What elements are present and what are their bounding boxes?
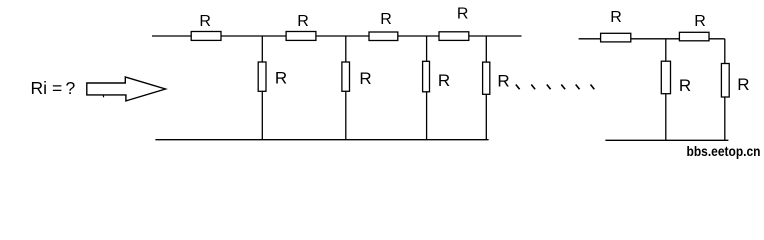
- svg-text:R: R: [457, 6, 469, 23]
- resistor R series 1: [191, 32, 221, 41]
- svg-text:R: R: [275, 69, 287, 88]
- resistor R series 5: [601, 33, 631, 42]
- resistor R shunt 5: [661, 61, 670, 93]
- wire node 3 vertical: [426, 36, 428, 140]
- svg-text:bbs.eetop.cn: bbs.eetop.cn: [687, 143, 761, 159]
- stray tick under arrow: [103, 95, 105, 97]
- resistor R shunt 2: [342, 62, 350, 91]
- svg-text:R: R: [297, 13, 309, 30]
- svg-text:?: ?: [66, 78, 76, 98]
- wire bottom rail left section: [155, 139, 488, 141]
- wire node 4 vertical: [485, 36, 487, 140]
- wire node 5 vertical: [665, 39, 667, 141]
- dots continuation: [516, 85, 595, 90]
- wire node 6 vertical: [724, 39, 726, 141]
- resistor R series 2: [286, 32, 316, 41]
- wire top rail left section: [152, 35, 522, 37]
- wire node 2 vertical: [345, 36, 347, 140]
- svg-text:R: R: [694, 13, 706, 30]
- svg-text:R: R: [497, 72, 509, 91]
- svg-text:R: R: [199, 13, 211, 30]
- svg-text:R: R: [359, 69, 371, 88]
- resistor R series 6: [679, 32, 709, 41]
- resistor R shunt 6: [721, 64, 729, 98]
- wire top rail right section: [579, 38, 725, 40]
- svg-text:R: R: [380, 11, 392, 28]
- resistor R series 4: [439, 32, 469, 41]
- wire bottom rail right section: [605, 139, 728, 141]
- svg-text:R: R: [679, 76, 691, 95]
- svg-text:=: =: [52, 78, 62, 98]
- wire node 1 vertical: [261, 36, 263, 140]
- svg-text:R: R: [737, 75, 749, 94]
- label Ri = ?: [31, 78, 76, 98]
- svg-text:R: R: [438, 71, 450, 90]
- svg-text:Ri: Ri: [31, 78, 48, 98]
- resistor R series 3: [369, 32, 398, 41]
- resistor R shunt 3: [423, 61, 430, 92]
- resistor R shunt 4: [483, 62, 490, 94]
- resistor R shunt 1: [258, 62, 266, 91]
- svg-text:R: R: [610, 9, 622, 26]
- arrow block pointing right: [87, 77, 166, 101]
